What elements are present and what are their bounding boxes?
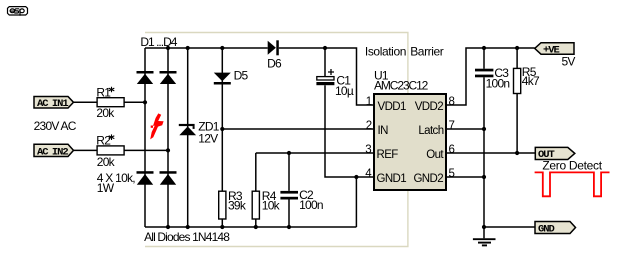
resistor R5 xyxy=(514,68,521,93)
node dot C2 REF xyxy=(287,151,291,155)
wire: AC IN2 to R2 to bridge xyxy=(74,149,169,151)
node dot GND1 branch xyxy=(354,175,358,179)
wire: bridge right leg xyxy=(167,48,169,227)
node dot bridge right top xyxy=(166,46,170,50)
svg-text:12V: 12V xyxy=(198,132,218,146)
svg-text:4k7: 4k7 xyxy=(522,74,540,88)
capacitor C3 xyxy=(475,69,493,78)
svg-text:39k: 39k xyxy=(228,199,247,213)
node dot R4 bottom xyxy=(254,225,258,229)
node dot C1 top xyxy=(323,46,327,50)
svg-text:100n: 100n xyxy=(486,77,510,91)
svg-text:10k: 10k xyxy=(262,199,281,213)
svg-text:1: 1 xyxy=(366,96,372,108)
terminal +VE xyxy=(535,43,574,57)
svg-text:20k: 20k xyxy=(97,155,116,169)
wire: bottom rail xyxy=(145,226,356,228)
svg-text:5: 5 xyxy=(449,168,455,180)
wire: Latch pin 7 xyxy=(447,128,484,130)
terminal GND xyxy=(535,222,576,236)
terminal OUT xyxy=(535,147,575,161)
diode D6 xyxy=(268,40,279,55)
svg-text:IN: IN xyxy=(378,125,389,137)
surge bolt symbol xyxy=(150,113,163,139)
svg-text:AMC23C12: AMC23C12 xyxy=(374,79,429,93)
svg-text:1W: 1W xyxy=(97,181,115,195)
zero detect waveform xyxy=(535,172,610,196)
wire: Out pin 6 to OUT terminal xyxy=(447,152,536,154)
wire: GND1 branch to bottom rail xyxy=(355,177,357,227)
svg-text:10µ: 10µ xyxy=(335,84,354,98)
svg-text:VDD1: VDD1 xyxy=(378,101,406,113)
svg-text:3: 3 xyxy=(365,144,371,156)
node dot C2 bottom xyxy=(287,225,291,229)
svg-text:230V AC: 230V AC xyxy=(34,119,77,133)
node dot GND2 C3 xyxy=(482,175,486,179)
svg-text:Latch: Latch xyxy=(418,125,443,137)
zener ZD1 xyxy=(179,124,196,135)
wire: IN pin 2 to D5 node xyxy=(222,128,373,130)
terminal AC IN1 xyxy=(34,97,74,110)
svg-text:4: 4 xyxy=(365,168,372,180)
wire: C1 leads and GND1 pin 4 xyxy=(325,48,373,177)
node dot IN junction xyxy=(220,127,224,131)
wire: C2 leads xyxy=(288,153,290,227)
svg-text:+VE: +VE xyxy=(543,44,560,56)
ESP logo xyxy=(8,7,28,16)
label R2 asterisk xyxy=(109,134,115,140)
wire: C3 leads to ground node xyxy=(483,48,485,227)
svg-text:7: 7 xyxy=(449,120,455,132)
wire: REF pin 3 to R4 xyxy=(256,153,373,227)
wire: top rail bridge to D6 xyxy=(145,47,268,49)
node dot D5 top xyxy=(220,46,224,50)
svg-text:IN2: IN2 xyxy=(52,146,69,158)
capacitor C1 xyxy=(316,69,334,85)
node dot R3 bottom xyxy=(220,225,224,229)
svg-text:Out: Out xyxy=(426,149,444,161)
node dot bridge right bottom xyxy=(166,225,170,229)
wire: VDD2 pin 8 to +VE rail xyxy=(447,48,535,105)
capacitor C2 xyxy=(280,191,298,200)
op-amp U1 AMC23C12 body xyxy=(374,94,446,190)
svg-text:Isolation: Isolation xyxy=(365,45,406,59)
wire: ZD1 leg xyxy=(187,48,189,227)
label R1 asterisk xyxy=(109,87,115,93)
ground symbol xyxy=(473,227,496,245)
svg-text:5V: 5V xyxy=(562,55,576,69)
svg-text:100n: 100n xyxy=(299,198,323,212)
wire: D6 to C1 node down to pin 1 VDD1 xyxy=(279,48,373,105)
node dot C3 top xyxy=(482,46,486,50)
svg-text:GND: GND xyxy=(538,223,555,235)
svg-text:AC: AC xyxy=(37,146,49,158)
resistor R4 xyxy=(252,191,259,219)
wire: ground node to GND terminal xyxy=(484,226,535,228)
svg-text:2: 2 xyxy=(366,120,372,132)
node dot R5 Out xyxy=(515,151,519,155)
wire: AC IN1 to R1 to bridge xyxy=(74,101,146,103)
node dot ZD1 top xyxy=(186,46,190,50)
svg-text:IN1: IN1 xyxy=(52,98,69,110)
svg-text:Barrier: Barrier xyxy=(410,45,444,59)
svg-text:D1 ...D4: D1 ...D4 xyxy=(140,35,177,49)
resistor R3 xyxy=(219,191,226,219)
svg-text:D6: D6 xyxy=(267,56,282,70)
diode D2 xyxy=(160,71,177,84)
node dot R5 top xyxy=(515,46,519,50)
svg-text:GND1: GND1 xyxy=(377,173,407,185)
diode D4 xyxy=(160,171,177,185)
wire: D5 R3 leg xyxy=(221,48,223,227)
svg-text:8: 8 xyxy=(449,96,455,108)
svg-text:Zero Detect: Zero Detect xyxy=(542,159,602,173)
diode D1 xyxy=(137,71,154,84)
resistor R1 xyxy=(97,98,124,107)
node dot ZD1 bottom xyxy=(186,225,190,229)
node dot Latch C3 xyxy=(482,127,486,131)
svg-text:REF: REF xyxy=(377,149,399,161)
svg-text:VDD2: VDD2 xyxy=(415,101,443,113)
svg-text:AC: AC xyxy=(37,98,49,110)
node dot R2 bridge xyxy=(166,148,170,152)
wire: GND2 pin 5 xyxy=(447,176,484,178)
resistor R2 xyxy=(97,146,124,155)
svg-text:20k: 20k xyxy=(96,106,115,120)
wire: bridge left leg xyxy=(144,48,146,227)
node dot R1 bridge xyxy=(143,100,147,104)
node dot ground xyxy=(482,225,486,229)
diode D5 xyxy=(214,73,231,85)
isolation barrier box xyxy=(145,33,408,247)
svg-text:D5: D5 xyxy=(234,69,249,83)
svg-text:All Diodes 1N4148: All Diodes 1N4148 xyxy=(144,230,230,244)
svg-text:6: 6 xyxy=(449,144,455,156)
svg-text:GND2: GND2 xyxy=(413,173,443,185)
wire: R5 leg xyxy=(516,48,518,153)
diode D3 xyxy=(137,171,154,185)
terminal AC IN2 xyxy=(34,144,74,158)
